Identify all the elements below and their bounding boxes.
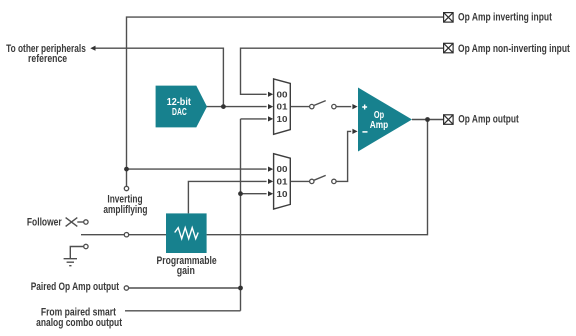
svg-text:00: 00	[277, 89, 288, 99]
programmable gain block	[166, 213, 207, 253]
wire: ground stub	[70, 247, 83, 259]
contact: switch1 left	[310, 104, 314, 108]
arrow into mux1 01	[268, 104, 273, 109]
mux U2 (lower)	[274, 154, 291, 209]
svg-text:reference: reference	[28, 53, 67, 65]
wire: switch1 to op amp + input	[336, 106, 351, 108]
arrow into mux2 00	[268, 167, 273, 172]
svg-text:DAC: DAC	[172, 107, 187, 118]
wire: to other peripherals reference	[92, 48, 224, 106]
arrow into mux1 10	[268, 116, 273, 121]
svg-text:Op Amp non-inverting input: Op Amp non-inverting input	[458, 43, 570, 55]
arrow into mux1 00	[268, 92, 273, 97]
node: inverting net junction	[124, 167, 129, 172]
arrow into op amp -	[352, 129, 357, 134]
resistor zigzag	[175, 228, 199, 239]
node: paired net to mux2 junction	[238, 191, 243, 196]
arrow into mux2 01	[268, 179, 273, 184]
svg-text:01: 01	[277, 102, 288, 112]
svg-text:gain: gain	[177, 265, 195, 277]
wire: mux2 output to switch	[290, 180, 309, 182]
svg-text:Amp: Amp	[370, 120, 388, 131]
contact: ground	[84, 244, 88, 248]
wire: paired net to mux1 input 10	[241, 118, 267, 120]
contact: follower	[84, 220, 88, 224]
arrow into op amp +	[352, 104, 357, 109]
node: paired op amp output junction	[238, 286, 243, 291]
op-amp - input sign	[362, 131, 367, 133]
wire: switch2 to op amp - input	[336, 131, 351, 181]
contact: inverting amplifying	[124, 186, 128, 190]
wire: from paired smart analog combo output	[125, 310, 241, 312]
svg-text:10: 10	[277, 114, 288, 124]
terminal: op amp inverting input	[444, 13, 454, 23]
ground	[64, 259, 77, 266]
arrowheads	[90, 46, 357, 197]
open contact circles	[84, 104, 336, 290]
op-amp U3	[358, 88, 412, 152]
wire: inverting net to mux2 input 00	[127, 168, 267, 170]
wire: paired op amp output	[129, 287, 241, 289]
wire: op amp output	[412, 119, 444, 121]
wire: feedback from output to gain	[207, 120, 428, 235]
op-amp + input sign	[362, 105, 367, 110]
follower cross X	[66, 218, 78, 227]
wire: mux1 output to switch	[290, 106, 309, 108]
contact: paired op amp output	[124, 286, 128, 290]
contact: switch2 left	[310, 179, 314, 183]
wire: op amp inverting input line (top)	[127, 17, 444, 186]
node: op amp output junction	[425, 117, 430, 122]
wire: follower stub	[77, 221, 83, 223]
contact: switch2 right	[332, 179, 336, 183]
svg-text:Op Amp output: Op Amp output	[458, 113, 519, 125]
12-bit DAC block	[156, 86, 207, 128]
wire: gain input line	[81, 234, 166, 236]
contact: switch1 right	[332, 104, 336, 108]
wire: gain to mux2 input 01	[188, 181, 266, 213]
contact: gain input	[124, 233, 128, 237]
svg-text:Paired Op Amp output: Paired Op Amp output	[31, 281, 120, 293]
terminal: op amp non-inverting input	[444, 43, 454, 53]
switch blade 1	[314, 101, 326, 106]
mux U1 (upper)	[274, 79, 291, 134]
wire: DAC output to mux1 input 01	[206, 106, 267, 108]
arrow to other peripherals (left)	[90, 46, 95, 51]
node: DAC output junction	[221, 104, 226, 109]
arrow into mux2 10	[268, 191, 273, 196]
switch blade 2	[314, 175, 326, 180]
wire: paired net to mux2 input 10	[241, 193, 267, 195]
svg-text:ampliflying: ampliflying	[103, 204, 147, 216]
svg-text:00: 00	[277, 164, 288, 174]
wire: op amp non-inverting input line	[241, 48, 444, 94]
svg-text:Follower: Follower	[27, 217, 62, 229]
terminal: op amp output	[444, 115, 454, 125]
svg-text:10: 10	[277, 189, 288, 199]
svg-text:Op Amp inverting input: Op Amp inverting input	[458, 12, 552, 24]
wire: paired output vertical net	[240, 119, 242, 311]
svg-text:analog combo output: analog combo output	[36, 317, 122, 329]
svg-text:01: 01	[277, 177, 288, 187]
